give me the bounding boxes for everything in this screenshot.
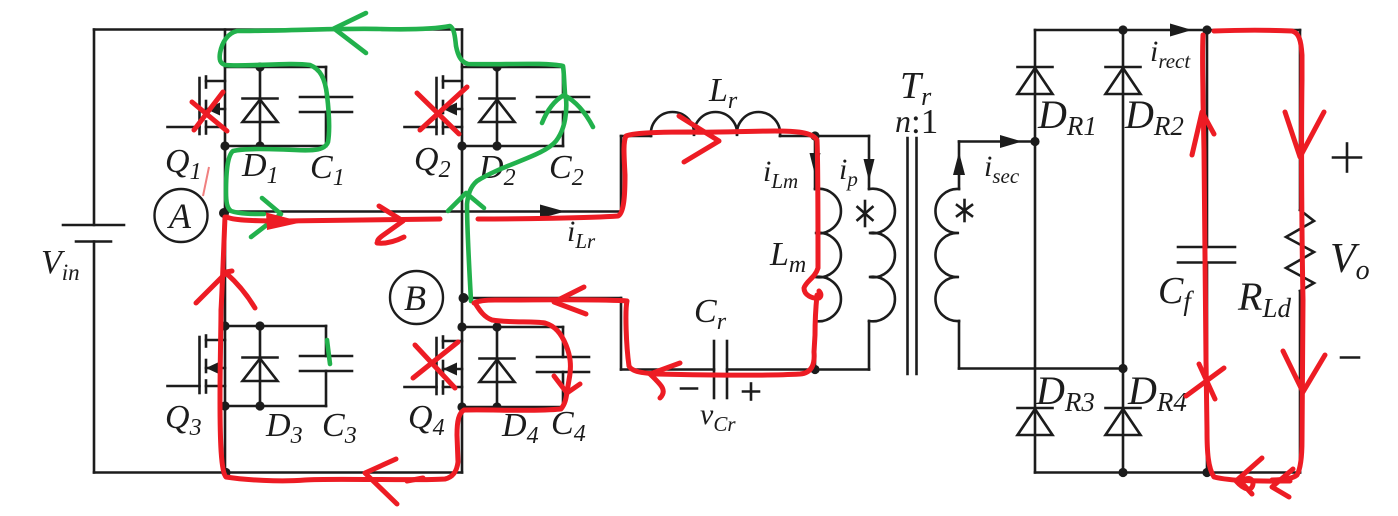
arrow iLr current direction	[540, 205, 565, 219]
wire red up arrowhead on Cf branch top	[1192, 112, 1214, 155]
node D2 top junction	[492, 62, 501, 71]
diode DR4	[1106, 408, 1141, 435]
wire secondary top lead	[958, 142, 961, 190]
capacitor C2	[537, 67, 589, 146]
wire Lm bottom lead	[814, 321, 817, 370]
wire red current path output loop via Cf	[1203, 35, 1290, 481]
wire Q2 cell cell bottom	[462, 145, 563, 148]
wire riser to Lr	[620, 136, 623, 212]
wire left rail bottom (Vin- to bottom rail)	[93, 242, 96, 473]
resistor RLd	[1286, 30, 1314, 473]
transistor Q1	[168, 77, 226, 135]
node D1 bottom junction	[255, 141, 264, 150]
inductor Lm	[815, 189, 841, 322]
arrow ip current direction	[864, 159, 875, 181]
node Q2 source junction	[457, 141, 466, 150]
wire red down arrowhead on RLd branch bottom	[1283, 351, 1325, 392]
node Q4 source junction	[457, 402, 466, 411]
capacitor C3	[300, 326, 352, 406]
wire node B to tank	[464, 297, 622, 300]
label Cr plus sign	[743, 384, 759, 400]
label output minus sign	[1341, 356, 1359, 359]
wire red checkmark arrow at C4	[554, 376, 580, 393]
wire primary bottom lead	[868, 321, 871, 370]
arrow isec current direction	[953, 152, 965, 175]
wire left rail top (Vin+ to top rail)	[93, 30, 96, 226]
node B circle label	[390, 271, 443, 324]
node B junction dot	[459, 293, 469, 303]
wire Q2 cell cell top	[462, 66, 563, 69]
transistor Q3	[168, 336, 226, 394]
wire rectifier left leg	[1034, 30, 1037, 473]
arrow isec horizontal direction	[1000, 135, 1022, 148]
wire Q4 cell cell bottom	[462, 406, 563, 409]
wire primary top lead	[868, 136, 871, 189]
transformer primary winding	[869, 189, 895, 322]
battery Vin	[63, 225, 124, 242]
wire red X mark on Q1 (switch off)	[192, 92, 227, 131]
diode D4	[480, 327, 515, 407]
wire green tick at C3	[327, 340, 330, 364]
node Lm bottom junction	[810, 365, 819, 374]
node rectifier left midpoint	[1030, 137, 1039, 146]
capacitor C4	[537, 327, 589, 407]
wire tank bottom right segment	[727, 368, 869, 371]
node Cf bottom junction	[1202, 468, 1211, 477]
node Q3 source junction	[220, 401, 229, 410]
node Q4 drain junction	[457, 322, 466, 331]
svg-text:A: A	[167, 196, 192, 236]
transformer secondary winding	[935, 189, 959, 321]
capacitor Cf	[1178, 30, 1235, 473]
wire tank bottom left segment	[621, 368, 714, 371]
label output plus sign	[1333, 144, 1361, 172]
transformer Tr core	[908, 138, 917, 374]
wire red up arrowhead on node A leg	[196, 271, 255, 308]
transistor Q2	[405, 77, 463, 135]
inductor Lr	[651, 112, 780, 136]
wire red down arrowhead on RLd branch top	[1285, 112, 1324, 157]
wire red arrowhead over Lr	[679, 116, 719, 162]
node D3 bottom junction	[255, 401, 264, 410]
arrow iLm current direction	[810, 153, 821, 175]
wire red left chevron 2 on output bottom rail	[1272, 469, 1293, 497]
wire secondary to rectifier	[959, 140, 1035, 143]
wire green arrowhead on top rail	[334, 13, 366, 53]
wire red arrowhead on node B wire	[554, 287, 586, 314]
wire red loop arrow on output bottom rail	[1236, 458, 1262, 494]
wire rectifier top rail	[1035, 29, 1300, 32]
wire rectifier right leg	[1122, 30, 1125, 473]
label secondary dot marking	[957, 200, 972, 221]
wire red current path middle rail to Lr to Lm to tank bottom to node B	[474, 131, 821, 375]
diode D3	[243, 326, 278, 406]
wire secondary to rectifier right midpoint	[959, 367, 1123, 370]
wire top rail	[94, 28, 462, 31]
label Cr minus sign	[681, 387, 697, 390]
wire tank left riser	[620, 298, 623, 370]
diode D2	[480, 67, 515, 146]
node Q3 leg bottom junction	[221, 468, 230, 477]
label primary dot marking	[858, 201, 873, 226]
wire Q1 cell cell bottom	[225, 145, 326, 148]
wire Q1 leg	[224, 30, 227, 214]
wire green arrowhead at node A	[251, 198, 281, 237]
wire Q3 cell cell bottom	[225, 405, 326, 408]
arrow irect current direction	[1170, 24, 1192, 37]
wire red arrowhead on Cr bottom wire	[650, 363, 680, 398]
wire Q1 cell cell top	[225, 66, 326, 69]
node Q3 drain junction	[220, 321, 229, 330]
node A junction dot	[219, 208, 229, 218]
diode D1	[243, 67, 278, 146]
wire green current loop through Q1 cell and top rail (hand drawn)	[220, 26, 565, 214]
wire red X mark on Q2 (switch off)	[417, 87, 467, 134]
wire middle rail node A to resonant tank	[224, 210, 621, 213]
wire Q4 cell cell top	[462, 326, 563, 329]
wire green arrowhead above node B	[448, 193, 484, 211]
wire red current path node B through C4 and Q4 to bottom rail to node A	[220, 217, 570, 481]
wire Q2 leg	[461, 30, 464, 299]
wire Q3 leg	[224, 213, 227, 473]
wire Q3 cell cell top	[225, 325, 326, 328]
transistor Q4	[405, 337, 463, 395]
node D2 bottom junction	[492, 141, 501, 150]
node D1 top junction	[255, 62, 264, 71]
capacitor Cr	[714, 341, 727, 398]
node Cf top junction	[1202, 25, 1211, 34]
node A circle label	[155, 189, 208, 242]
wire secondary bottom lead	[958, 321, 961, 369]
wire Lm top lead	[814, 136, 817, 189]
wire red current path output loop via RLd	[1214, 30, 1303, 480]
wire Lr to Lm junction	[780, 135, 869, 138]
wire bottom rail	[94, 471, 462, 474]
wire red X mark on Q4 (switch off)	[413, 342, 458, 388]
wire Q4 leg	[461, 298, 464, 473]
node D3 top junction	[255, 321, 264, 330]
wire green branch C2 to node B	[467, 98, 566, 301]
wire red current path node A to middle rail segment 1	[227, 217, 440, 221]
diode DR1	[1018, 67, 1053, 94]
node Lm top junction	[810, 131, 819, 140]
svg-text:B: B	[404, 278, 426, 318]
wire red stray mark below Q1	[203, 167, 209, 196]
wire red overlap dash on bottom rail	[407, 478, 423, 481]
diode DR3	[1018, 408, 1053, 435]
node D4 top junction	[492, 322, 501, 331]
wire red arrowhead 2 on middle rail	[377, 206, 404, 243]
wire red X arrow marks on Cf branch bottom	[1186, 364, 1224, 399]
node D4 bottom junction	[492, 402, 501, 411]
wire rectifier bottom rail	[1035, 471, 1300, 474]
wire green arrowhead at C2	[542, 95, 593, 127]
node Q1 source junction	[220, 141, 229, 150]
node DR2 top junction	[1118, 25, 1127, 34]
wire red arrowhead on bottom rail	[365, 459, 397, 504]
node DR4 bottom junction	[1118, 468, 1127, 477]
node rectifier right midpoint	[1118, 364, 1127, 373]
capacitor C1	[300, 67, 352, 146]
svg-text:n:1: n:1	[895, 102, 938, 141]
wire Lr left lead	[621, 135, 651, 138]
diode DR2	[1106, 67, 1141, 94]
wire red filled arrow on middle rail	[266, 213, 303, 231]
